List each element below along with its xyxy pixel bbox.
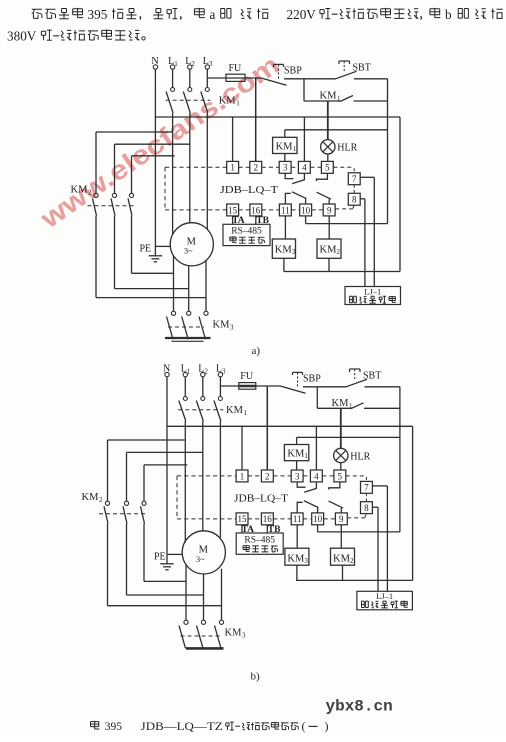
svg-text:SBP: SBP: [303, 374, 321, 385]
svg-text:15: 15: [238, 514, 248, 524]
svg-text:3: 3: [304, 557, 308, 565]
svg-text:LJ–1: LJ–1: [364, 286, 381, 296]
svg-text:2: 2: [350, 557, 354, 565]
svg-text:SBT: SBT: [353, 63, 371, 74]
svg-text:3~: 3~: [196, 555, 205, 564]
svg-text:1: 1: [236, 100, 240, 108]
svg-text:a: a: [210, 7, 216, 22]
svg-text:395: 395: [88, 7, 108, 22]
svg-text:16: 16: [263, 514, 273, 524]
svg-text:JDB–LQ–T: JDB–LQ–T: [234, 494, 288, 505]
svg-text:1: 1: [293, 145, 297, 153]
svg-text:HLR: HLR: [350, 451, 370, 462]
svg-text:4: 4: [314, 471, 319, 481]
svg-text:JDB–LQ–T: JDB–LQ–T: [220, 185, 278, 196]
svg-text:KM: KM: [71, 185, 89, 196]
svg-text:15: 15: [228, 205, 238, 215]
svg-text:KM: KM: [320, 91, 338, 102]
svg-text:KM: KM: [287, 554, 305, 565]
svg-text:RS–485: RS–485: [231, 227, 262, 237]
svg-text:SBT: SBT: [363, 371, 381, 382]
svg-text:380V: 380V: [7, 28, 37, 43]
svg-text:1: 1: [304, 452, 308, 460]
svg-text:KM: KM: [320, 245, 338, 256]
svg-text:(: (: [302, 719, 306, 733]
svg-text:3: 3: [295, 471, 300, 481]
svg-text:JDB—LQ—TZ: JDB—LQ—TZ: [141, 721, 223, 733]
svg-text:7: 7: [364, 483, 369, 493]
svg-text:2: 2: [88, 189, 92, 197]
svg-text:b): b): [251, 671, 261, 683]
svg-text:4: 4: [302, 163, 307, 173]
svg-text:2: 2: [337, 248, 341, 256]
svg-text:N: N: [151, 56, 158, 67]
svg-text:FU: FU: [240, 371, 254, 382]
svg-text:220V: 220V: [287, 7, 317, 22]
svg-text:KM: KM: [225, 628, 243, 639]
svg-text:KM: KM: [276, 141, 294, 152]
svg-text:PE: PE: [154, 552, 166, 563]
svg-text:10: 10: [313, 514, 323, 524]
svg-text:395: 395: [105, 721, 123, 733]
svg-text:KM: KM: [287, 449, 305, 460]
svg-text:KM: KM: [226, 405, 244, 416]
svg-text:3: 3: [283, 163, 288, 173]
svg-text:3: 3: [242, 632, 246, 640]
svg-text:1: 1: [230, 163, 235, 173]
svg-text:9: 9: [339, 514, 344, 524]
svg-text:11: 11: [281, 205, 290, 215]
svg-text:8: 8: [364, 503, 369, 513]
svg-text:1: 1: [337, 95, 341, 103]
svg-text:11: 11: [293, 514, 302, 524]
svg-text:HLR: HLR: [337, 143, 357, 154]
svg-text:KM: KM: [219, 96, 237, 107]
svg-text:KM: KM: [333, 554, 351, 565]
svg-text:KM: KM: [82, 492, 100, 503]
svg-text:1: 1: [349, 402, 353, 410]
svg-text:a): a): [252, 345, 261, 357]
svg-text:3~: 3~: [184, 247, 193, 256]
svg-text:SBP: SBP: [284, 66, 302, 77]
svg-text:3: 3: [230, 324, 234, 332]
svg-text:RS–485: RS–485: [244, 535, 275, 545]
svg-text:1: 1: [240, 471, 245, 481]
svg-text:9: 9: [327, 205, 332, 215]
svg-text:KM: KM: [275, 245, 293, 256]
svg-text:10: 10: [301, 205, 311, 215]
svg-text:KM: KM: [332, 398, 350, 409]
svg-text:5: 5: [325, 163, 330, 173]
svg-text:PE: PE: [140, 244, 152, 255]
svg-text:7: 7: [352, 174, 357, 184]
svg-text:): ): [325, 719, 329, 733]
svg-text:5: 5: [338, 471, 343, 481]
svg-text:3: 3: [292, 248, 296, 256]
svg-text:FU: FU: [229, 63, 243, 74]
svg-text:ybx8.cn: ybx8.cn: [326, 698, 393, 716]
svg-text:16: 16: [251, 205, 261, 215]
svg-text:N: N: [163, 363, 170, 374]
svg-text:2: 2: [253, 163, 258, 173]
svg-text:2: 2: [99, 496, 103, 504]
svg-text:2: 2: [265, 471, 270, 481]
svg-text:1: 1: [244, 409, 248, 417]
svg-text:LJ–1: LJ–1: [376, 591, 393, 601]
svg-text:8: 8: [352, 195, 357, 205]
svg-text:KM: KM: [213, 320, 231, 331]
svg-text:b: b: [445, 7, 452, 22]
